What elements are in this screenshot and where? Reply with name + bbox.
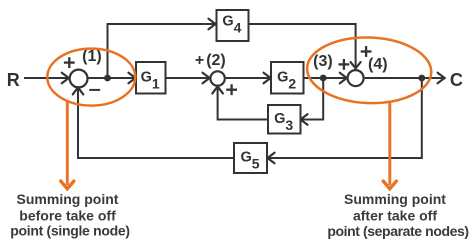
svg-text:G: G — [240, 150, 251, 166]
svg-text:2: 2 — [288, 75, 296, 91]
block G3 — [268, 105, 301, 134]
svg-text:5: 5 — [252, 156, 260, 172]
wire summing point 2 to block G2 — [226, 77, 269, 79]
svg-text:(3): (3) — [313, 53, 333, 70]
svg-text:1: 1 — [152, 75, 160, 91]
svg-text:point (separate nodes): point (separate nodes) — [327, 223, 468, 239]
block G5 — [234, 143, 267, 173]
summing point (4) — [348, 70, 364, 86]
wire block G3 to summing point 2 from below — [218, 89, 268, 120]
svg-text:after take off: after take off — [353, 208, 437, 224]
sign - at summing point 1 — [89, 89, 100, 91]
node (3) take-off dot — [320, 75, 327, 82]
sign + above summing point 4 — [361, 46, 372, 57]
orange ellipse around summing point 4 (separate nodes) — [306, 35, 432, 105]
orange annotation arrow right — [388, 101, 391, 186]
sign + at summing point 2 lower right — [226, 84, 237, 95]
node after summing point 4 take-off dot — [418, 75, 425, 82]
wire node 3 down to block G3 — [302, 78, 323, 120]
svg-text:G: G — [274, 111, 285, 127]
svg-text:Summing point: Summing point — [344, 191, 446, 207]
wire output node down to block G5 — [269, 78, 422, 158]
wire R to summing point 1 — [24, 77, 67, 79]
svg-text:G: G — [222, 14, 233, 30]
wire block G1 to summing point 2 — [166, 77, 209, 79]
wire take-off node A up to block G4 — [108, 24, 215, 78]
block G1 — [136, 62, 166, 94]
sign + at summing point 1 — [64, 57, 75, 68]
svg-text:4: 4 — [234, 20, 242, 36]
svg-text:point (single node): point (single node) — [10, 222, 130, 238]
svg-text:C: C — [450, 70, 463, 90]
orange annotation arrow left — [66, 101, 69, 185]
wire summing point 1 to block G1 — [89, 77, 135, 79]
svg-text:G: G — [277, 69, 288, 85]
sign + left of summing point 4 — [339, 59, 350, 70]
wire summing point 4 to output C — [365, 77, 443, 79]
summing point (1) — [70, 70, 88, 88]
wire block G4 down into summing point 4 — [249, 24, 356, 67]
svg-text:(4): (4) — [368, 56, 388, 73]
svg-text:Summing point: Summing point — [17, 191, 119, 207]
svg-text:(1): (1) — [82, 48, 102, 65]
svg-text:R: R — [7, 70, 20, 90]
svg-text:3: 3 — [285, 117, 293, 133]
wire block G5 to summing point 1 from below — [78, 90, 234, 159]
svg-text:G: G — [141, 69, 152, 85]
block G4 — [217, 10, 249, 41]
wire block G2 to summing point 4 — [304, 77, 346, 79]
svg-text:before take off: before take off — [19, 208, 116, 224]
block G2 — [271, 62, 304, 94]
node A take-off dot — [104, 75, 111, 82]
orange ellipse around summing point 1 (single node) — [47, 49, 135, 106]
svg-text:+(2): +(2) — [195, 52, 226, 69]
summing point (2) — [210, 71, 224, 85]
